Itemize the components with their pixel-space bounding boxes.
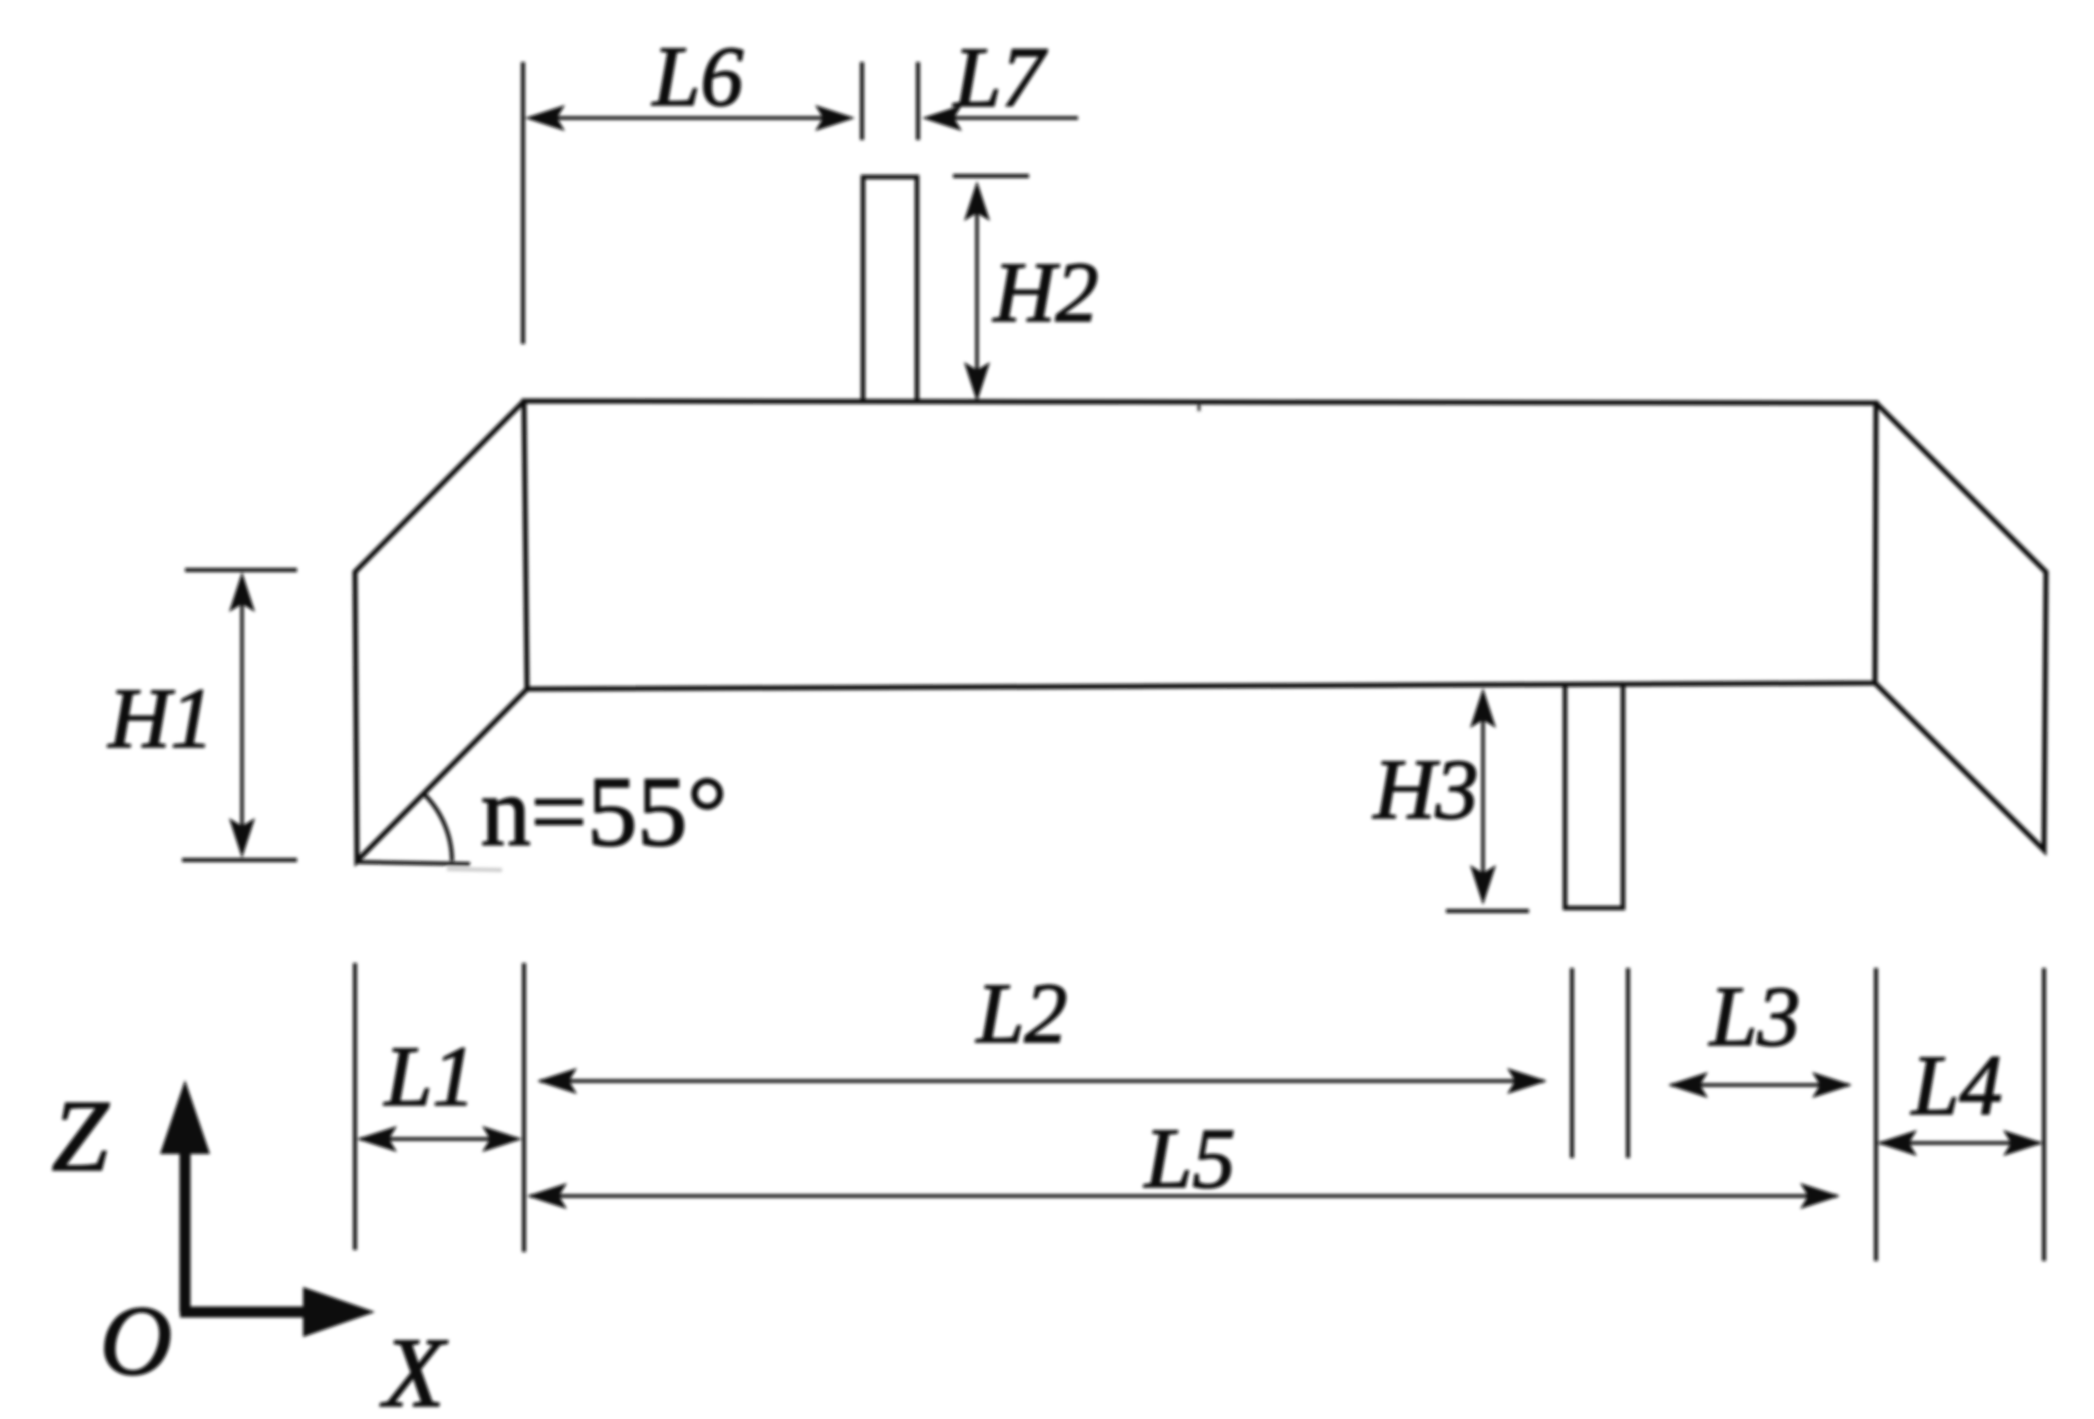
H1 down arrowhead — [229, 818, 255, 858]
H2 top tick — [953, 174, 1029, 178]
H3 up arrowhead — [1470, 688, 1496, 728]
L7 left tick (stub right edge) — [916, 62, 920, 140]
L6 dimension line — [530, 116, 850, 119]
L4 dimension line — [1880, 1141, 2040, 1144]
H2 up arrowhead — [964, 181, 990, 221]
L3 left arrowhead — [1668, 1072, 1708, 1098]
L6 left arrowhead — [525, 105, 565, 131]
left bent side wall — [355, 401, 527, 861]
H3 bottom tick — [1446, 909, 1529, 913]
svg-text:L4: L4 — [1910, 1037, 2003, 1133]
angle arc n=55 — [423, 793, 452, 861]
H1 top tick — [185, 568, 297, 572]
svg-text:L1: L1 — [383, 1028, 476, 1124]
L4 left arrowhead — [1877, 1130, 1917, 1156]
L6 left extension line — [521, 62, 525, 344]
svg-text:L3: L3 — [1708, 968, 1801, 1064]
X axis line — [180, 1307, 307, 1318]
main plate body outline — [524, 401, 1876, 689]
H1 dimension arrow line — [240, 580, 243, 850]
svg-text:H1: H1 — [107, 670, 213, 766]
bottom extension line x524 — [522, 963, 526, 1252]
L1 left arrowhead — [357, 1126, 397, 1152]
svg-text:L6: L6 — [651, 28, 744, 124]
L2 left arrowhead — [537, 1068, 577, 1094]
bottom extension line x1876 — [1874, 968, 1878, 1261]
L6 right tick (stub left edge) — [860, 62, 864, 140]
svg-text:O: O — [100, 1285, 172, 1396]
L5 dimension line — [530, 1194, 1837, 1197]
svg-text:X: X — [379, 1317, 448, 1419]
L7 left arrowhead — [922, 105, 962, 131]
L5 left arrowhead — [527, 1183, 567, 1209]
H2 dimension arrow line — [975, 188, 978, 396]
svg-text:H2: H2 — [992, 244, 1098, 340]
angle faint leg extension — [447, 869, 502, 870]
svg-text:L2: L2 — [975, 965, 1068, 1061]
bottom extension line x2044 — [2042, 968, 2046, 1261]
angle horizontal leg — [357, 862, 470, 864]
svg-text:Z: Z — [52, 1080, 110, 1193]
L2 dimension line — [540, 1079, 1544, 1082]
svg-text:L7: L7 — [952, 29, 1048, 125]
bottom stub (probe) — [1565, 685, 1623, 908]
H3 down arrowhead — [1470, 865, 1496, 905]
L7 dimension line — [928, 116, 1078, 119]
L1 right arrowhead — [482, 1126, 522, 1152]
L3 dimension line — [1671, 1083, 1849, 1086]
L6 right arrowhead — [815, 105, 855, 131]
bottom extension line x1572 — [1570, 968, 1574, 1158]
svg-text:L5: L5 — [1143, 1110, 1236, 1206]
bottom extension line x355 — [353, 963, 357, 1250]
L1 dimension line — [360, 1137, 518, 1140]
X axis arrowhead — [303, 1287, 375, 1337]
Z axis arrowhead — [160, 1080, 210, 1154]
svg-text:H3: H3 — [1372, 741, 1478, 837]
Z axis line — [180, 1152, 191, 1312]
top stub (feed strip) — [863, 177, 917, 402]
right bent side wall — [1875, 403, 2046, 850]
svg-text:n=55°: n=55° — [481, 756, 727, 867]
L3 right arrowhead — [1812, 1072, 1852, 1098]
L5 right arrowhead — [1800, 1183, 1840, 1209]
L4 right arrowhead — [2003, 1130, 2043, 1156]
L2 right arrowhead — [1507, 1068, 1547, 1094]
H1 bottom tick — [182, 858, 297, 862]
H3 dimension arrow line — [1481, 696, 1484, 898]
small mark on top line — [1198, 403, 1201, 411]
bottom extension line x1628 — [1626, 968, 1630, 1158]
H1 up arrowhead — [229, 572, 255, 612]
H2 down arrowhead — [964, 362, 990, 402]
